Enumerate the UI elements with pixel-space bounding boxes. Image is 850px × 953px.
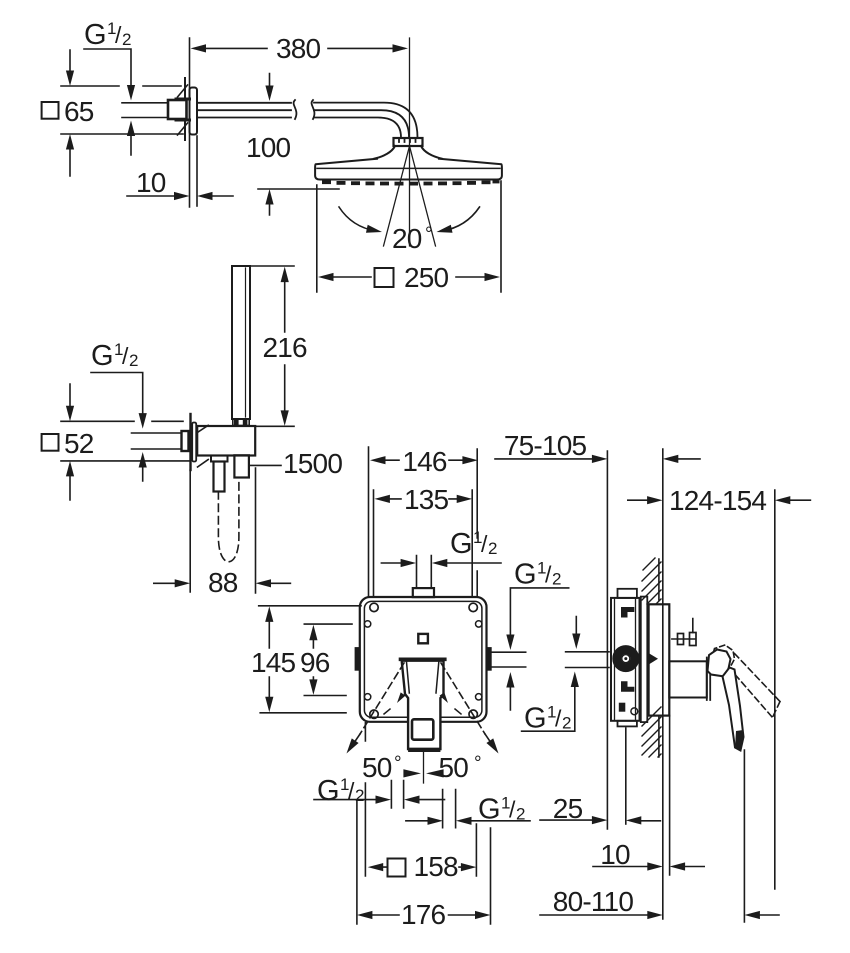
- 146 extension lines: [369, 447, 478, 597]
- svg-text:88: 88: [208, 567, 238, 598]
- dimension 100: [269, 74, 271, 216]
- svg-text:96: 96: [300, 647, 330, 678]
- swivel arc arrows: [339, 207, 376, 231]
- svg-text:50: 50: [362, 752, 392, 783]
- handle grip: [708, 650, 731, 677]
- dimension 176: [372, 914, 477, 916]
- body lower screw: [631, 708, 638, 715]
- swing line left (dashed): [360, 663, 404, 734]
- hose (dashed): [218, 479, 239, 562]
- bracket nut: [182, 431, 189, 451]
- head rim line: [317, 167, 500, 169]
- set screw square: [418, 634, 428, 643]
- 216 extension lines: [250, 266, 294, 426]
- svg-text:52: 52: [64, 428, 94, 459]
- svg-text:135: 135: [404, 484, 449, 515]
- head centerline / 380 extension: [409, 38, 411, 246]
- trim plate: [649, 604, 670, 715]
- svg-text:158: 158: [414, 851, 459, 882]
- bracket body: [197, 426, 255, 456]
- svg-text:°: °: [425, 224, 432, 245]
- side tabs: [355, 647, 360, 671]
- G 1/2 label (bottom left outlet): [317, 775, 364, 807]
- body top tab: [618, 589, 637, 598]
- corner screws: [370, 603, 378, 611]
- 135 extension lines: [374, 490, 473, 597]
- leader line G1/2 arm: [84, 49, 131, 155]
- bracket break marks: [198, 425, 209, 467]
- G 1/2 label (top stub): [450, 528, 497, 560]
- wall face line: [662, 449, 664, 919]
- 176 extension lines: [357, 800, 491, 924]
- bottom pipe right: [443, 790, 456, 828]
- rough-in box outer: [360, 597, 487, 722]
- cartridge: [617, 650, 635, 668]
- leader 1500: [249, 464, 281, 466]
- tube break symbol: [294, 100, 315, 119]
- bracket escutcheon: [192, 423, 196, 462]
- svg-text:20: 20: [392, 223, 422, 254]
- 50 deg arrows: [403, 769, 443, 777]
- hose outlet: [211, 456, 228, 462]
- dimension square 158: [382, 866, 462, 868]
- head bottom reference line: [258, 188, 339, 190]
- arm bend: [314, 103, 418, 138]
- leader G1/2 side lower: [522, 617, 577, 732]
- swivel collar: [394, 138, 423, 146]
- bracket wall line: [189, 414, 191, 470]
- edge holes: [364, 621, 370, 627]
- svg-text:°: °: [394, 753, 401, 774]
- dimension 135: [389, 498, 459, 500]
- top stub: [413, 588, 434, 597]
- body lower block: [619, 703, 626, 712]
- svg-text:65: 65: [64, 96, 94, 127]
- dimension square-52 arrows: [69, 384, 71, 500]
- side body: [611, 598, 640, 721]
- dimension square 250: [331, 276, 487, 278]
- svg-text:146: 146: [402, 446, 447, 477]
- head body: [315, 159, 502, 180]
- blade tip: [735, 730, 744, 751]
- 145/96 extension lines: [259, 606, 361, 713]
- svg-text:50: 50: [439, 752, 469, 783]
- handle sleeve: [669, 661, 707, 697]
- svg-text:124-154: 124-154: [669, 485, 766, 516]
- G 1/2 label (side upper): [514, 559, 561, 591]
- stem centerline: [423, 752, 425, 783]
- dimension 124-154: [628, 499, 811, 501]
- square-65 extension lines: [61, 86, 183, 134]
- arm square nut: [168, 100, 187, 119]
- top supply pipe: [417, 556, 432, 589]
- dimension 380: [195, 47, 404, 49]
- svg-text:1500: 1500: [283, 448, 342, 479]
- handle swing reference line: [774, 490, 776, 889]
- svg-text:380: 380: [276, 33, 321, 64]
- leader G1/2 bottom left: [314, 799, 445, 801]
- dimension 10 (wall offset): [127, 195, 233, 197]
- value square 52: [42, 434, 59, 451]
- svg-text:145: 145: [251, 647, 296, 678]
- small swing ticks: [395, 692, 406, 704]
- svg-text:250: 250: [404, 262, 449, 293]
- 88 extension lines: [190, 468, 255, 593]
- G 1/2 label (arm thread): [84, 19, 131, 51]
- trim front extension: [669, 716, 671, 875]
- bottom pipe left: [391, 781, 403, 809]
- body clamp top: [621, 607, 634, 618]
- handle blade: [723, 668, 744, 751]
- head cone: [374, 146, 442, 159]
- handle tip extension: [743, 750, 745, 922]
- square-52 extension lines: [61, 421, 190, 461]
- shower arm tube: [197, 103, 291, 118]
- spray nozzles: [322, 180, 500, 185]
- wall hatching: [642, 558, 661, 757]
- stop screw: [672, 619, 695, 640]
- leader G1/2 bottom right: [406, 820, 530, 822]
- stick spray band / holder jaws: [233, 419, 249, 426]
- supply unions between views: [492, 652, 609, 668]
- bracket union tube: [132, 433, 182, 449]
- handle swung position (dashed): [712, 645, 735, 669]
- plate face extension: [196, 136, 198, 206]
- dimension 145: [268, 619, 270, 700]
- hand shower stick: [232, 266, 250, 419]
- lever cup and stem: [402, 661, 444, 749]
- svg-text:216: 216: [263, 332, 308, 363]
- svg-text:10: 10: [136, 167, 166, 198]
- depth reference line: [606, 451, 608, 829]
- stem square hole: [412, 719, 433, 739]
- leader G1/2 bracket: [91, 373, 143, 482]
- rough-in box inner: [364, 601, 482, 717]
- wall line: [189, 38, 191, 207]
- arm tube stub behind wall: [122, 103, 168, 118]
- square-250 extension lines: [317, 181, 501, 292]
- svg-text:°: °: [474, 753, 481, 774]
- svg-text:75-105: 75-105: [504, 430, 587, 461]
- arm escutcheon plate: [190, 88, 198, 135]
- body bottom tab: [618, 721, 637, 727]
- mounting plate: [641, 597, 648, 723]
- dimension square-65 arrows: [69, 50, 71, 176]
- 20 degree swivel lines: [384, 146, 436, 246]
- svg-text:10: 10: [600, 839, 630, 870]
- square-158 extension lines: [365, 723, 476, 876]
- dimension 216: [284, 279, 286, 414]
- depth line D: [625, 728, 627, 824]
- swing line right (dashed): [441, 663, 485, 734]
- svg-text:100: 100: [246, 132, 291, 163]
- G 1/2 label (hand shower bracket): [91, 340, 138, 372]
- leader G1/2 side upper: [510, 588, 568, 710]
- wall back line segments: [658, 559, 660, 757]
- dimension 88: [154, 582, 291, 584]
- leader G1/2 top stub: [381, 562, 501, 564]
- G 1/2 label (side lower): [524, 703, 571, 735]
- G 1/2 label (bottom right outlet): [478, 794, 525, 826]
- flow arrow: [650, 654, 659, 664]
- wall nipple with break marks: [184, 78, 186, 140]
- svg-text:80-110: 80-110: [553, 886, 634, 917]
- body clamp bottom: [621, 681, 634, 692]
- dimension 146: [385, 459, 463, 461]
- value square 65: [42, 102, 59, 119]
- hose elbow: [234, 455, 249, 477]
- svg-text:176: 176: [401, 899, 446, 930]
- dimension 96: [312, 637, 314, 683]
